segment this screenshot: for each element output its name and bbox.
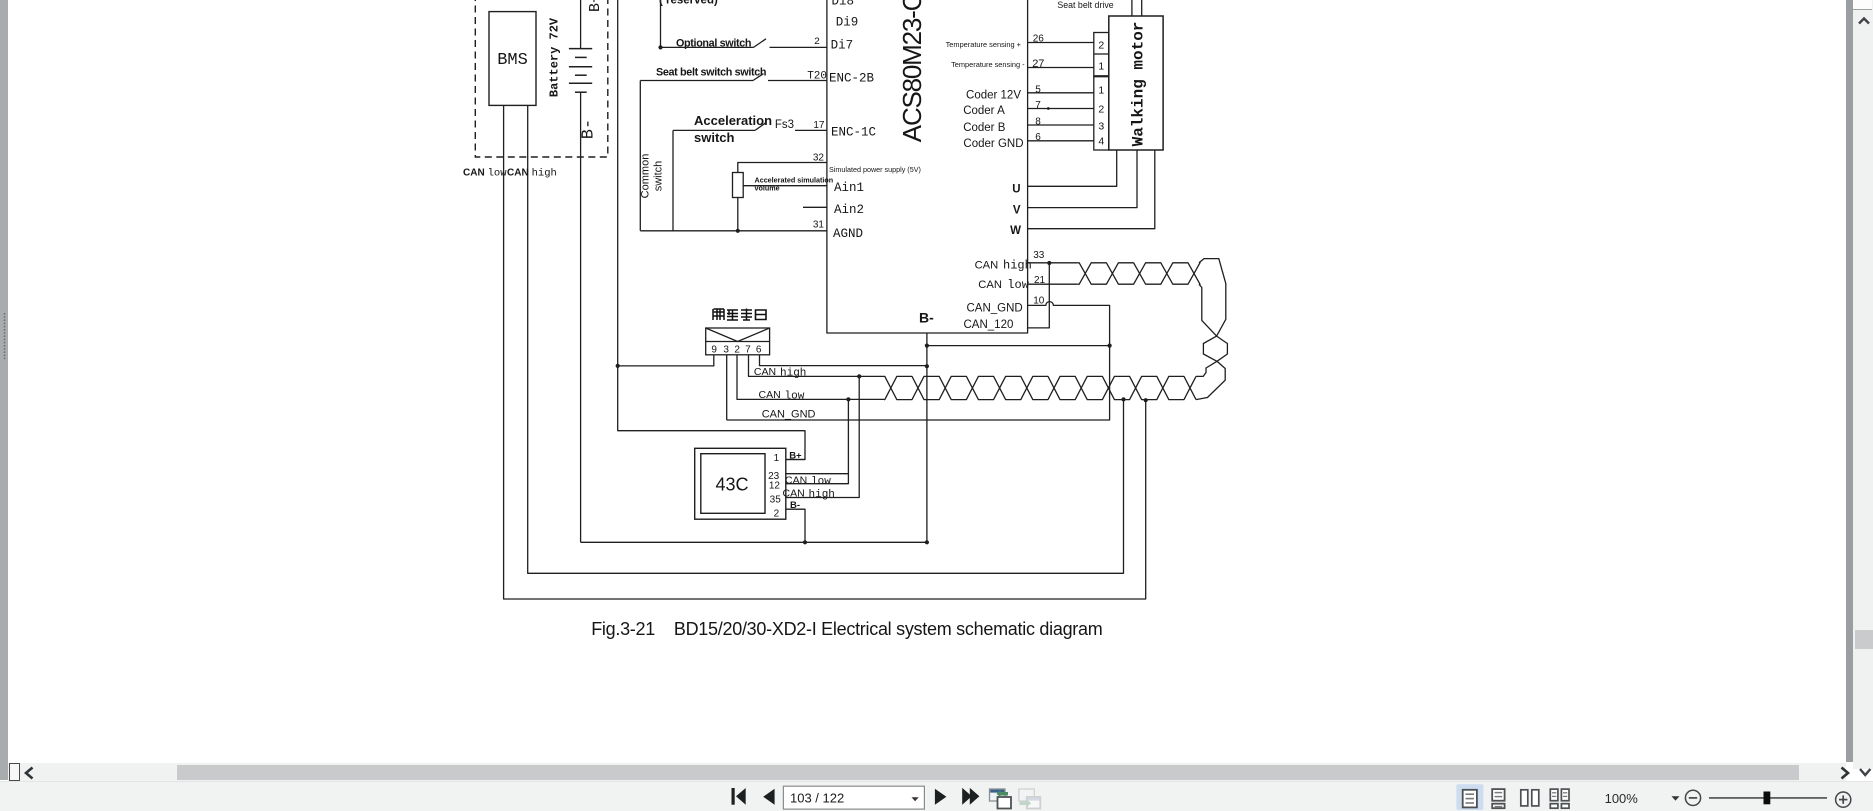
wire temp sensing + (26): [1028, 42, 1094, 44]
wire CAN_120 pin with terminator link: [1028, 263, 1050, 328]
junction potentiometer-AGND: [736, 229, 740, 233]
display 43C outer box: [695, 448, 786, 519]
junction 43C B- on bus: [803, 540, 807, 544]
walking motor M1 box: [1109, 16, 1163, 150]
vertical scrollbar track: [1853, 0, 1873, 769]
junction CANlow riser: [846, 397, 850, 401]
toolbar first page button: [732, 788, 746, 805]
wire J1 pin2 CAN low drop: [737, 355, 884, 400]
zoom out button: [1685, 790, 1700, 805]
wire J1 pin3 CAN_GND drop: [726, 355, 728, 420]
svg-text:ENC-2B: ENC-2B: [829, 72, 875, 86]
wire CAN_GND pin 10 with hop: [727, 302, 1110, 420]
svg-text:CAN_GND: CAN_GND: [762, 409, 816, 421]
svg-text:2: 2: [1098, 104, 1104, 116]
wire 43C pin2 B- drop: [786, 509, 805, 542]
wire battery B+ rail to 43C: [618, 0, 805, 460]
svg-text:3: 3: [723, 344, 729, 355]
right splitter bar: [1846, 0, 1853, 762]
seat belt switch SW2: [640, 74, 827, 81]
svg-text:27: 27: [1032, 58, 1044, 70]
svg-text:Acceleration: Acceleration: [694, 113, 772, 128]
svg-text:CAN: CAN: [754, 366, 776, 378]
next view button (disabled): [1019, 789, 1041, 809]
junction CANGND-Bminus bus: [1108, 344, 1112, 348]
layout two pages button: [1521, 790, 1539, 806]
seat belt drive wires: [1131, 0, 1133, 16]
toolbar previous page button: [763, 789, 774, 805]
svg-text:Ain1: Ain1: [834, 181, 864, 195]
svg-text:35: 35: [770, 495, 782, 506]
svg-text:31: 31: [813, 220, 825, 231]
svg-text:33: 33: [1033, 250, 1045, 261]
wire coder B (8): [1028, 124, 1094, 126]
battery B- wire down to bottom bus: [580, 92, 582, 542]
svg-text:Seat belt switch switch: Seat belt switch switch: [656, 67, 766, 79]
programming connector J1: [706, 328, 770, 355]
BMS CAN low wire (left pin down, bottom run, riser to braid): [504, 105, 1146, 599]
wire Ain1 from potentiometer wiper: [743, 185, 827, 187]
vertical scrollbar up arrow: [1857, 16, 1871, 27]
controller ACS80M23-C box: [827, 0, 1028, 333]
twisted pair corner turn: [1199, 259, 1226, 337]
wire pin32 from potentiometer top: [738, 163, 827, 173]
twisted pair upper (CAN bus to motor side): [1078, 263, 1200, 284]
svg-text:Temperature sensing +: Temperature sensing +: [946, 40, 1021, 49]
wire temp sensing - (27): [1028, 67, 1094, 69]
svg-text:B-: B-: [919, 310, 934, 326]
wire W phase: [1028, 150, 1155, 229]
svg-text:Fig.3-21 BD15/20/30-XD2-I E: Fig.3-21 BD15/20/30-XD2-I Electrical sys…: [591, 619, 1102, 639]
wire coder A (7): [1028, 108, 1094, 110]
svg-text:Fs3: Fs3: [775, 119, 794, 131]
svg-text:1: 1: [1098, 61, 1104, 73]
svg-text:6: 6: [756, 344, 762, 355]
svg-text:CAN: CAN: [759, 389, 781, 401]
svg-text:volume: volume: [755, 184, 780, 193]
svg-text:low: low: [785, 390, 805, 402]
svg-text:Battery 72V: Battery 72V: [548, 17, 562, 97]
programming connector title: [713, 309, 724, 320]
battery pack dashed enclosure: [475, 0, 608, 157]
svg-text:Coder A: Coder A: [963, 105, 1005, 117]
wire 43C pin23 CAN low: [786, 473, 849, 475]
wire AGND bottom run: [640, 230, 827, 232]
page number input box: [783, 786, 924, 809]
potentiometer R1: [733, 173, 744, 198]
twisted pair lower (CAN bus): [884, 376, 1196, 399]
svg-text:4: 4: [1098, 135, 1104, 147]
wire 43C pin1 B+ stub: [786, 459, 805, 461]
wire CAN low pin 21: [1028, 283, 1078, 285]
wire J1 pin6 to B- drop: [760, 355, 927, 366]
svg-text:3: 3: [1098, 120, 1104, 132]
svg-text:Simulated power supply (5V): Simulated power supply (5V): [829, 165, 921, 174]
svg-text:Coder B: Coder B: [963, 122, 1006, 134]
acceleration switch drop wire: [672, 130, 674, 230]
battery cell plates: [569, 48, 592, 50]
svg-text:43C: 43C: [715, 475, 748, 495]
vertical scrollbar down arrow: [1858, 766, 1872, 778]
motor temp connector (pins 2,1): [1094, 33, 1109, 76]
wire CAN high pin 33: [1028, 262, 1078, 264]
bottom toolbar background: [0, 781, 1873, 811]
junction pin9-B+ rail: [616, 364, 620, 368]
left collapsed sidebar strip: [0, 0, 8, 780]
svg-text:17: 17: [813, 120, 825, 131]
svg-text:Seat belt drive: Seat belt drive: [1057, 0, 1113, 10]
svg-text:2: 2: [774, 509, 780, 520]
svg-text:CAN: CAN: [785, 475, 807, 487]
svg-text:ENC-1C: ENC-1C: [831, 125, 876, 139]
svg-text:W: W: [1010, 225, 1021, 237]
battery B+ wire (top): [580, 0, 582, 49]
BMS CAN high wire (right pin down, bottom run, riser to braid): [528, 105, 1124, 573]
svg-text:V: V: [1013, 204, 1021, 216]
pages panel button: [9, 763, 20, 782]
junction braid tap CAN low: [1144, 398, 1148, 402]
BMS module box: [489, 12, 536, 106]
wire potentiometer bottom to AGND: [737, 198, 739, 231]
svg-text:low: low: [1007, 278, 1029, 292]
svg-text:( reserved): ( reserved): [659, 0, 718, 7]
svg-text:B+: B+: [587, 0, 604, 12]
wire J1 pin7 CAN high drop: [749, 355, 885, 377]
svg-text:Di8: Di8: [832, 0, 855, 9]
toolbar next page button: [935, 789, 947, 805]
svg-text:low: low: [811, 476, 831, 488]
wire U phase: [1028, 150, 1117, 186]
wire B- to CAN_GND link: [927, 345, 1110, 347]
svg-text:Ain2: Ain2: [834, 203, 864, 217]
svg-text:Di7: Di7: [831, 39, 854, 53]
wire V phase: [1028, 150, 1137, 208]
svg-text:high: high: [1003, 258, 1032, 272]
layout two pages continuous button: [1550, 789, 1569, 808]
svg-text:CAN high: CAN high: [507, 167, 557, 180]
wire reserved branch vertical: [660, 0, 662, 47]
zoom in button: [1836, 792, 1851, 807]
svg-text:high: high: [780, 368, 806, 380]
horizontal scrollbar track: [8, 763, 1846, 781]
junction CAN120-CANhigh: [1047, 261, 1051, 265]
svg-text:2: 2: [814, 37, 820, 48]
svg-text:5: 5: [1035, 84, 1041, 95]
junction optional switch corner: [658, 45, 662, 49]
scroll right arrow: [1838, 766, 1852, 780]
svg-text:AGND: AGND: [833, 227, 863, 241]
svg-text:CAN: CAN: [978, 279, 1002, 291]
junction pin6 line end: [925, 364, 929, 368]
junction braid tap CAN high: [1121, 397, 1125, 401]
svg-text:switch: switch: [694, 130, 735, 145]
svg-text:1: 1: [1098, 85, 1104, 97]
wire coder GND (6): [1028, 140, 1094, 142]
collapse left arrow: [22, 766, 36, 780]
sidebar grip dots: [0, 313, 8, 359]
layout continuous button: [1492, 789, 1504, 808]
junction bus right end: [925, 540, 929, 544]
svg-text:switch: switch: [653, 161, 665, 192]
wire 43C pin12 CAN low2: [786, 399, 849, 483]
svg-text:ACS80M23-C: ACS80M23-C: [897, 0, 927, 142]
common switch left wire: [639, 81, 641, 231]
zoom slider: [1709, 797, 1827, 799]
svg-text:B-: B-: [580, 119, 599, 139]
acceleration switch SW3: [673, 122, 827, 130]
optional switch SW1: [661, 39, 827, 48]
layout single page button (active): [1456, 784, 1483, 810]
junction B- link left: [925, 344, 929, 348]
svg-text:10: 10: [1033, 295, 1045, 306]
junction CANhigh riser: [857, 374, 861, 378]
svg-text:Coder GND: Coder GND: [963, 138, 1023, 150]
svg-text:U: U: [1012, 183, 1020, 195]
coder connector (pins 1-4): [1094, 77, 1109, 150]
svg-text:7: 7: [745, 344, 751, 355]
svg-text:BMS: BMS: [497, 51, 528, 70]
svg-text:CAN_120: CAN_120: [964, 319, 1014, 331]
svg-text:2: 2: [1098, 40, 1104, 52]
wire J1 pin9 to B+ rail: [618, 355, 714, 366]
horizontal scrollbar thumb: [177, 765, 1799, 781]
svg-text:9: 9: [711, 344, 717, 355]
previous view button: [990, 789, 1012, 809]
wire 43C pin35 CAN high riser: [786, 376, 859, 497]
display 43C inner box: [701, 454, 765, 514]
svg-text:Di9: Di9: [836, 16, 859, 30]
svg-text:12: 12: [769, 480, 781, 491]
svg-text:CAN: CAN: [975, 259, 999, 271]
svg-text:Walking motor: Walking motor: [1130, 22, 1148, 147]
toolbar last page button: [962, 788, 979, 805]
wire Ain2 stub: [803, 206, 827, 208]
vertical scrollbar thumb: [1855, 630, 1873, 649]
svg-text:Temperature sensing -: Temperature sensing -: [951, 60, 1025, 69]
svg-text:CAN_GND: CAN_GND: [967, 302, 1023, 314]
svg-text:high: high: [809, 489, 835, 501]
svg-text:1: 1: [774, 453, 780, 464]
svg-text:Common: Common: [640, 154, 652, 199]
svg-text:Coder 12V: Coder 12V: [966, 90, 1021, 102]
wire coder 12V (5): [1028, 92, 1094, 94]
svg-text:2: 2: [734, 344, 740, 355]
vertical scrollbar top button: [1853, 0, 1872, 10]
wire B- drop from controller: [926, 333, 928, 542]
svg-text:CAN low: CAN low: [463, 167, 507, 180]
wire bottom B- bus: [581, 541, 927, 543]
